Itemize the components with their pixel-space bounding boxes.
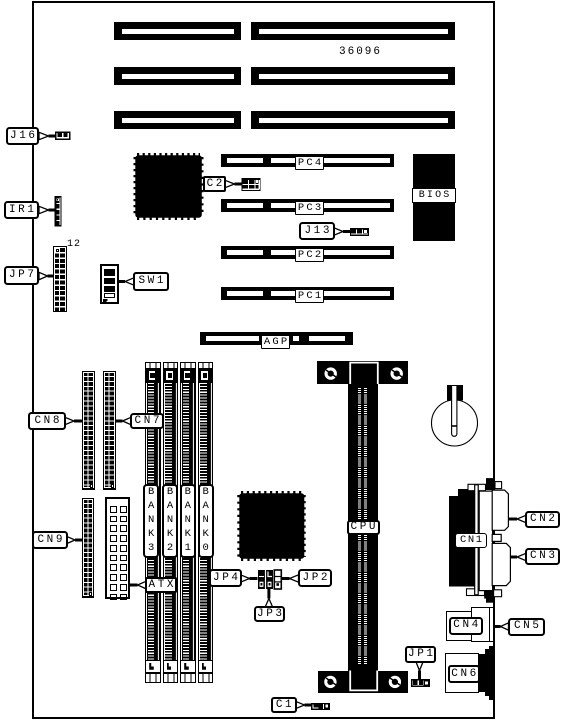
switch SW1 (DIP) [100,264,119,304]
label CN8 [28,412,66,430]
connector C1 [311,703,330,710]
CN1 center tab [492,534,501,541]
DIMM socket BANK0 [198,362,214,683]
DIMM socket BANK3 [145,362,161,683]
CPU slot body [348,384,379,671]
label CN5 [508,618,545,636]
connector CN2 port [492,490,508,530]
PCI slot PC4 [221,154,394,167]
label JP2 [298,569,332,587]
label BANK0 [198,484,214,558]
jumper JP2 pins [274,570,281,589]
pointer C2 [225,180,235,187]
header CN7 [103,371,116,490]
label AGP [261,335,290,349]
label CN4 [449,617,483,635]
CPU slot top bracket [317,361,408,384]
label CN1 [455,533,487,548]
CN1 rear housing [449,496,476,587]
CPU slot bottom bracket [318,671,408,693]
AGP slot [200,332,353,345]
label PC2 [295,248,324,262]
label CN6 [448,665,480,682]
ISA slot row 1 left [114,22,241,40]
CN1 bottom mounting tab [467,589,485,596]
ISA slot row 2 left [114,67,241,85]
label JP1 [405,646,436,663]
CPU slot contact rows [358,388,361,665]
label JP3 [254,606,285,622]
pointer CN9 [67,536,76,543]
pointer CN3 [517,553,526,560]
ISA slot row 3 left [114,111,241,129]
pointer C1 [296,701,305,708]
label ATX [145,577,177,593]
connector C2 [242,178,261,191]
label BIOS [412,188,456,203]
pointer JP2 [290,575,299,582]
PCI slot PC3 [221,199,394,212]
pointer CN5 [501,623,509,630]
label C2 [203,176,226,192]
mounting hole top-left [325,367,337,379]
PCI slot PC1 [221,287,394,300]
label CPU [347,520,380,536]
DIMM socket BANK1 [180,362,196,683]
connector CN4 (USB) outer [446,611,489,641]
pointer JP4 [241,575,250,582]
label JP7 [4,266,39,285]
header CN9 [82,498,95,598]
jumper JP4 pins [258,570,265,589]
pointer J16 [39,132,49,139]
pointer JP1 [416,662,423,671]
label CN9 [32,531,68,549]
pointer JP3 [265,599,272,608]
label PC1 [295,289,324,303]
chip U2 (QFP with pins) [240,494,303,559]
mounting hole top-right [391,367,403,379]
label PC4 [295,156,324,170]
jumper JP3 pins [266,570,273,589]
pointer ATX [138,581,147,588]
pointer CN8 [65,417,74,424]
pointer J13 [334,228,343,235]
label J16 [6,127,39,145]
connector JP7 (2x12 header) [53,246,67,312]
DIMM socket BANK2 [163,362,179,683]
CN1 body front [479,491,492,590]
pointer JP7 [39,272,48,279]
JP7 pin label 12 [67,239,81,250]
PCI slot PC2 [221,246,394,259]
part number 36096 [339,46,382,58]
pointer SW1 [125,278,134,285]
label CN3 [525,548,560,565]
pointer CN7 [123,417,132,424]
ISA slot row 1 right [251,22,455,40]
label J13 [299,222,335,240]
mounting hole bottom-right [389,676,401,688]
connector CN3 port [492,543,510,585]
CN1 top mounting tab [468,484,486,490]
pointer CN2 [517,515,526,522]
label BANK3 [143,484,159,558]
label IR1 [4,201,39,219]
slot key notch bottom [350,671,377,691]
mounting hole bottom-left [324,676,336,688]
header CN8 [82,371,95,490]
label BANK2 [162,484,178,558]
ISA slot row 2 right [251,67,455,85]
CN1 bracket strip [475,485,479,595]
label CN7 [130,413,164,429]
label PC3 [295,201,324,215]
ISA slot row 3 right [251,111,455,129]
connector J13 [350,228,369,236]
pointer IR1 [39,206,49,213]
label JP4 [209,569,242,587]
connector IR1 [55,196,62,227]
label BANK1 [180,484,196,558]
connector ATX power [105,497,130,599]
connector JP1 [411,679,430,687]
label C1 [271,697,297,713]
BIOS chip body [413,154,455,241]
slot key notch top [350,363,378,384]
label CN2 [525,511,560,528]
connector CN6 assembly [445,653,479,692]
label SW1 [133,272,169,291]
